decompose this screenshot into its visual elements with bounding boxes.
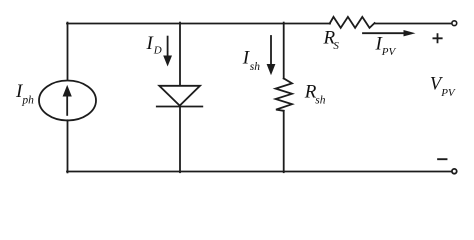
current source Iph (ellipse) (39, 81, 96, 121)
resistor Rsh (276, 78, 292, 110)
current source arrow (up) (66, 95, 68, 115)
current arrow ID (167, 37, 169, 57)
wire top rail left (node A to diode branch) (67, 23, 330, 25)
wire top rail right to positive terminal (375, 23, 451, 25)
wire bottom rail (67, 171, 452, 173)
diode cathode bar (157, 106, 203, 108)
svg-text:S: S (333, 40, 339, 52)
wire left branch upper (67, 23, 69, 81)
wire shunt branch lower (283, 111, 285, 172)
wire diode branch lower (179, 107, 181, 173)
svg-text:D: D (153, 45, 162, 57)
current arrow IPV (363, 32, 406, 34)
terminal negative (open circle) (452, 169, 457, 174)
wire left branch lower (67, 120, 69, 172)
plus terminal label (433, 34, 441, 42)
wire diode branch upper (179, 23, 181, 86)
svg-text:sh: sh (315, 95, 325, 107)
terminal positive (open circle) (452, 21, 457, 26)
resistor RS (330, 17, 375, 28)
diode D (159, 86, 200, 106)
svg-text:PV: PV (381, 46, 397, 58)
wire shunt branch upper (283, 23, 285, 79)
svg-text:sh: sh (250, 61, 260, 73)
svg-text:PV: PV (440, 87, 456, 99)
minus terminal label (438, 158, 446, 160)
svg-text:ph: ph (21, 94, 34, 106)
current arrow Ish (270, 36, 272, 66)
